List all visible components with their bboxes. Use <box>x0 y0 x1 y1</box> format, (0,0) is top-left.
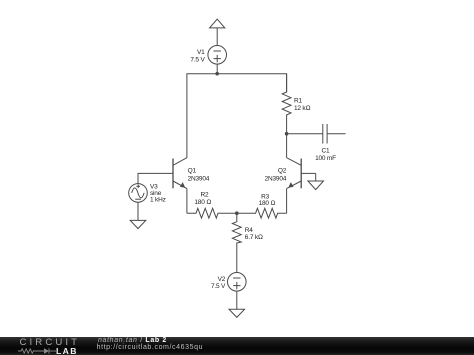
resistor R1 <box>282 74 291 134</box>
svg-text:180 Ω: 180 Ω <box>259 200 276 207</box>
wire Q1 emitter drop <box>186 189 188 214</box>
voltage source V2 <box>228 273 247 292</box>
transistor Q1 <box>173 158 187 189</box>
label Q2 <box>265 168 287 183</box>
resistor R2 <box>187 208 237 218</box>
label C1 value <box>315 148 336 163</box>
wire V2 to ground <box>236 291 238 309</box>
svg-text:180 Ω: 180 Ω <box>194 199 211 206</box>
node R1/C1/Q2 junction <box>285 132 289 136</box>
wire Q2 base to ground <box>315 173 317 181</box>
svg-text:6.7 kΩ: 6.7 kΩ <box>245 234 263 241</box>
svg-text:100 mF: 100 mF <box>315 155 336 162</box>
svg-text:V1: V1 <box>197 49 205 56</box>
ground (Q2 base) <box>308 181 324 190</box>
wire top ground to V1 <box>216 28 218 46</box>
label R3 value <box>259 193 276 207</box>
capacitor C1 <box>287 124 346 144</box>
label R1 value <box>294 98 310 113</box>
svg-text:2N3904: 2N3904 <box>188 176 210 183</box>
svg-text:C1: C1 <box>322 148 330 155</box>
svg-text:R1: R1 <box>294 98 302 105</box>
svg-text:2N3904: 2N3904 <box>265 176 287 183</box>
svg-text:R2: R2 <box>201 191 209 198</box>
CircuitLab logo wordmark CIRCUIT <box>20 338 81 348</box>
svg-text:7.5 V: 7.5 V <box>190 57 205 64</box>
node rail/V1 junction <box>215 72 219 76</box>
svg-text:Q2: Q2 <box>278 168 287 175</box>
ground (V3) <box>130 220 146 228</box>
svg-text:7.5 V: 7.5 V <box>211 283 226 290</box>
wire Q2 collector rise <box>286 134 288 158</box>
label R4 value <box>245 227 263 241</box>
CircuitLab logo squiggle (resistor+diode) <box>18 347 58 355</box>
svg-text:1 kHz: 1 kHz <box>150 197 166 204</box>
label V1 value <box>190 49 205 64</box>
label R2 value <box>194 191 211 206</box>
wire top rail <box>187 74 287 158</box>
label V2 value <box>211 276 226 290</box>
svg-text:12 kΩ: 12 kΩ <box>294 105 310 112</box>
voltage source V3 (sine) <box>129 184 148 203</box>
ground (top, flipped up) <box>210 19 225 28</box>
wire V3 bottom to ground <box>137 202 139 220</box>
transistor Q2 <box>287 158 316 189</box>
resistor R4 <box>232 213 241 272</box>
label V3 value <box>150 184 166 204</box>
node R2/R3/R4 junction <box>235 211 239 215</box>
wire V3 top to Q1 base <box>138 173 173 183</box>
wire Q2 emitter rise <box>286 189 288 214</box>
voltage source V1 <box>208 46 227 65</box>
svg-text:R4: R4 <box>245 227 253 234</box>
CircuitLab logo wordmark LAB <box>56 347 78 355</box>
footer url text <box>97 344 204 351</box>
footer title text <box>98 337 167 344</box>
svg-text:Q1: Q1 <box>188 168 197 175</box>
resistor R3 <box>237 208 287 218</box>
ground (V2) <box>229 309 245 317</box>
label Q1 <box>188 168 210 183</box>
wire V1 to rail <box>216 64 218 74</box>
